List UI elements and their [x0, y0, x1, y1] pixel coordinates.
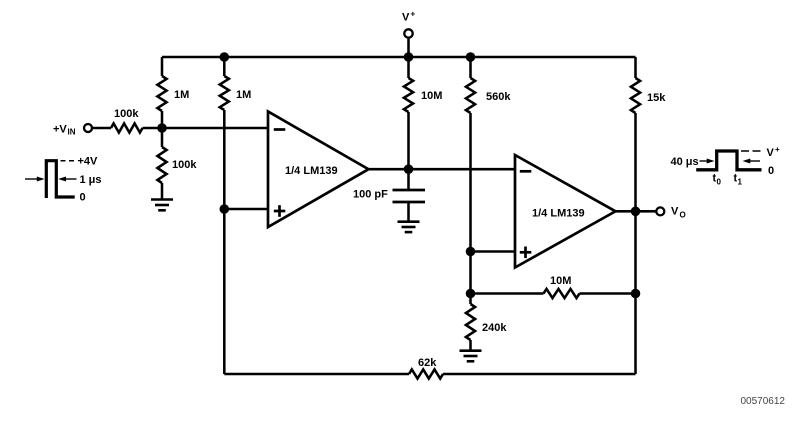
op-amp U1 1/4 LM139	[268, 112, 369, 228]
node rail / 560k	[466, 52, 476, 62]
resistor 15k	[631, 78, 640, 113]
resistor 100k input	[111, 123, 143, 132]
svg-text:+: +	[775, 145, 780, 154]
wire rail corner to 15k	[634, 57, 637, 78]
output waveform arrow left	[700, 159, 715, 164]
wire feedback right node down to bottom rail	[634, 294, 637, 375]
svg-text:1M: 1M	[174, 89, 189, 101]
svg-text:10M: 10M	[550, 275, 571, 287]
node input junction	[157, 123, 167, 133]
op-amp U2 1/4 LM139	[515, 155, 616, 268]
svg-text:V: V	[767, 147, 775, 159]
op-amp U1 plus pin mark	[274, 205, 286, 217]
wire 100k to ground	[161, 183, 164, 199]
wire plus node down to bottom rail	[223, 209, 226, 374]
wire 1M left to input node	[161, 111, 164, 128]
wire bottom rail left	[224, 373, 409, 376]
wire R100k to op1 inverting input	[143, 127, 269, 130]
label U2 1/4 LM139	[532, 208, 585, 220]
label 100k input	[114, 108, 139, 120]
node op1 plus junction	[220, 204, 230, 214]
svg-text:+4V: +4V	[78, 156, 99, 168]
svg-text:0: 0	[768, 165, 774, 177]
resistor 10M feedback	[544, 289, 580, 298]
label 100 pF	[353, 189, 388, 201]
input waveform pulse	[46, 161, 74, 198]
svg-text:+: +	[411, 10, 416, 19]
label +VIN	[53, 124, 76, 137]
svg-text:IN: IN	[68, 128, 76, 137]
svg-text:560k: 560k	[486, 91, 511, 103]
svg-text:100k: 100k	[114, 108, 139, 120]
terminal V+	[404, 29, 412, 37]
wire V+ terminal to rail	[407, 37, 410, 57]
op-amp U2 plus pin mark	[520, 247, 532, 259]
svg-text:O: O	[680, 211, 686, 220]
wire 1M right down to plus node	[223, 110, 226, 209]
svg-text:1M: 1M	[236, 89, 251, 101]
label 10M vertical	[421, 90, 442, 102]
wire output node down to feedback right node	[634, 211, 637, 293]
wire 240k to ground	[469, 340, 472, 350]
svg-text:100 pF: 100 pF	[353, 189, 388, 201]
svg-text:100k: 100k	[172, 159, 197, 171]
svg-text:10M: 10M	[421, 90, 442, 102]
svg-text:1/4 LM139: 1/4 LM139	[285, 165, 338, 177]
svg-text:V: V	[402, 12, 410, 24]
label 1 us	[80, 174, 102, 186]
terminal VO	[656, 207, 664, 215]
terminal +VIN	[84, 124, 92, 132]
node op1 output	[404, 164, 414, 174]
label 15k	[647, 92, 666, 104]
wire top supply rail	[162, 56, 636, 59]
label 1M left	[174, 89, 189, 101]
resistor 560k	[466, 78, 475, 113]
output waveform dashes to V+	[741, 150, 763, 152]
node op2 plus junction	[466, 247, 476, 257]
wire 560k down to op2 plus node	[469, 113, 472, 252]
label U1 1/4 LM139	[285, 165, 338, 177]
wire 10M to op1 output node	[407, 112, 410, 169]
svg-text:240k: 240k	[482, 322, 507, 334]
wire rail corner to 1M left	[161, 57, 164, 76]
svg-text:V: V	[671, 206, 679, 218]
svg-text:1 μs: 1 μs	[80, 174, 102, 186]
input waveform arrow right	[58, 177, 76, 182]
resistor 1M right	[220, 76, 229, 110]
wire op2 plus node to feedback node	[469, 252, 472, 294]
svg-text:00570612: 00570612	[741, 396, 786, 407]
svg-text:15k: 15k	[647, 92, 666, 104]
label 10M feedback	[550, 275, 571, 287]
node feedback left	[466, 289, 476, 299]
ground capacitor	[398, 222, 420, 232]
label 1M right	[236, 89, 251, 101]
svg-text:62k: 62k	[418, 357, 437, 369]
op-amp U2 minus pin mark	[520, 170, 532, 173]
label V+	[402, 10, 416, 24]
wire op1 output to op2 inverting input	[369, 168, 516, 171]
label document number 00570612	[741, 396, 786, 407]
label 560k	[486, 91, 511, 103]
wire capacitor to ground	[407, 202, 410, 221]
ground 240k	[460, 351, 482, 362]
wire op2 plus node to op2	[471, 250, 516, 253]
label 0 output waveform	[768, 165, 774, 177]
label 240k	[482, 322, 507, 334]
wire input node to 100k lower	[161, 128, 164, 147]
wire feedback left node to 10M horizontal	[471, 292, 544, 295]
wire feedback node to 240k	[469, 294, 472, 305]
wire rail to 560k	[469, 57, 472, 78]
label +4V	[78, 156, 99, 168]
svg-text:0: 0	[717, 178, 722, 187]
svg-text:1/4 LM139: 1/4 LM139	[532, 208, 585, 220]
resistor 10M vertical	[404, 78, 413, 112]
label t1	[734, 173, 743, 187]
input waveform dashes to +4V	[61, 160, 76, 162]
wire 15k down to output node	[634, 113, 637, 211]
ground input divider	[151, 200, 173, 211]
svg-text:1: 1	[738, 178, 743, 187]
label V+ output waveform	[767, 145, 781, 159]
node feedback right	[631, 289, 641, 299]
output waveform arrow right	[743, 159, 761, 164]
svg-text:40 μs: 40 μs	[671, 156, 699, 168]
wire rail to 1M right	[223, 57, 226, 76]
label 100k lower	[172, 159, 197, 171]
resistor 240k	[466, 304, 475, 340]
wire 10M horizontal to feedback right node	[580, 292, 636, 295]
label 62k	[418, 357, 437, 369]
label 40 us	[671, 156, 699, 168]
resistor 62k	[409, 369, 443, 378]
wire op1 output node to capacitor	[407, 169, 410, 189]
label t0	[713, 173, 722, 187]
output waveform pulse	[696, 151, 761, 170]
resistor 1M left	[157, 76, 166, 111]
wire VIN terminal to R 100k	[92, 127, 111, 130]
node V+ rail / 10M	[404, 52, 414, 62]
label 0 input waveform	[80, 192, 86, 204]
svg-text:0: 0	[80, 192, 86, 204]
input waveform arrow left	[25, 177, 45, 182]
wire rail to 10M	[407, 57, 410, 78]
op-amp U1 minus pin mark	[274, 128, 286, 131]
wire bottom rail right	[443, 373, 636, 376]
node output	[631, 207, 641, 217]
resistor 100k to ground	[157, 147, 166, 183]
node rail / 1M right	[220, 52, 230, 62]
capacitor C1 100 pF	[393, 190, 426, 202]
wire op2 output	[616, 210, 657, 213]
label VO	[671, 206, 686, 220]
wire op1 plus node to op1	[224, 208, 268, 211]
svg-text:+V: +V	[53, 124, 67, 136]
